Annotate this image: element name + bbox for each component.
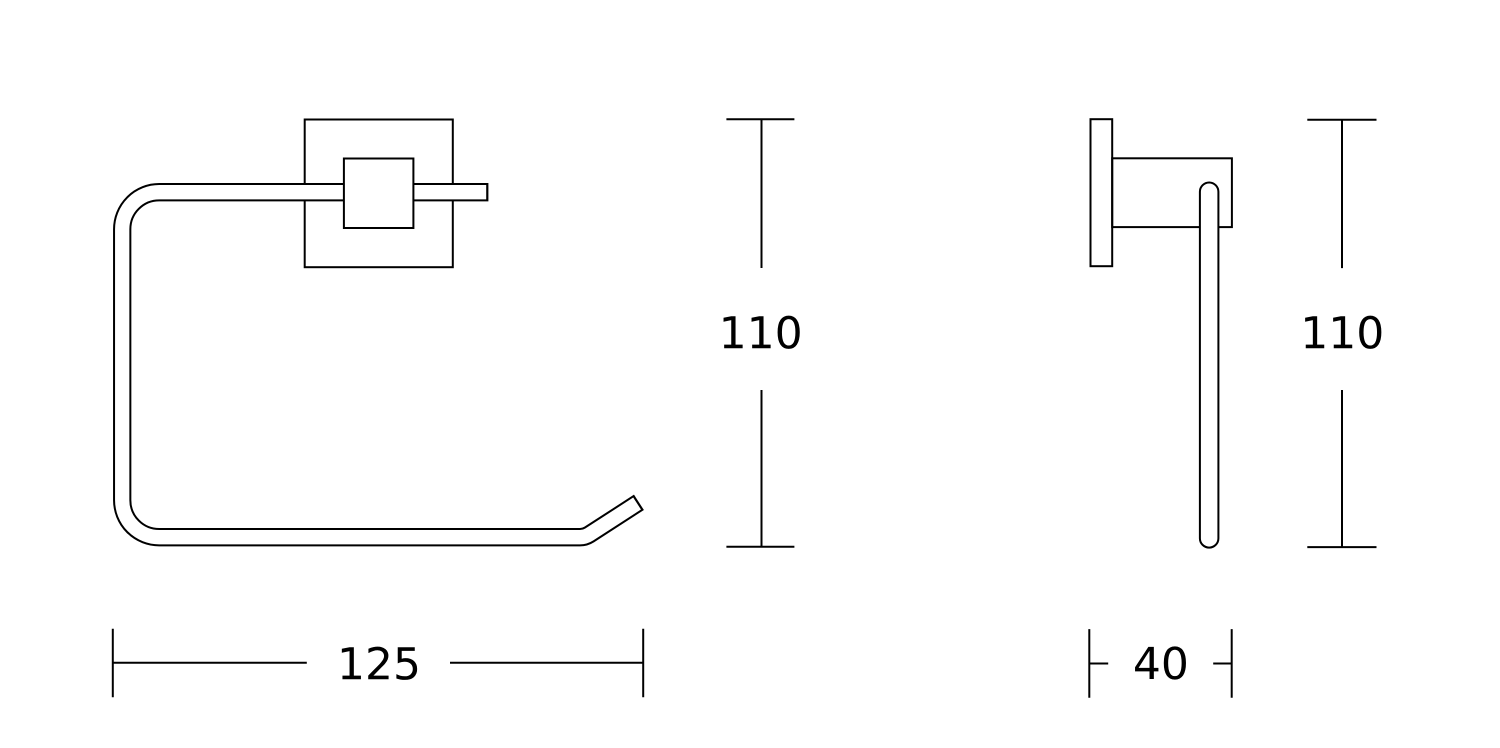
label 110 (left figure) bbox=[724, 316, 800, 349]
dimension 40 right line bbox=[1213, 663, 1232, 665]
dimension 110 (left figure) bottom tick bbox=[726, 546, 794, 548]
label 125 bbox=[342, 647, 417, 680]
dimension 125 left tick bbox=[112, 629, 114, 697]
label 110 (right figure) bbox=[1305, 316, 1381, 349]
dimension 40 left line bbox=[1089, 663, 1108, 665]
dimension 110 (left figure) lower extension line bbox=[761, 390, 763, 547]
dimension 110 (right figure) bottom tick bbox=[1307, 546, 1376, 548]
dimension 125 left line bbox=[113, 662, 307, 664]
wall plate (side view, right figure) bbox=[1091, 119, 1113, 266]
dimension 40 left tick bbox=[1088, 629, 1090, 698]
dimension 110 (left figure) top tick bbox=[726, 118, 794, 120]
mounting arm (side view, right figure) bbox=[1112, 158, 1232, 227]
rod (paper holder wire, left figure) black outline pass bbox=[122, 192, 639, 537]
dimension 125 right tick bbox=[642, 629, 644, 697]
wall plate (front view, left figure) bbox=[305, 120, 453, 268]
rod (side view capsule, right figure) bbox=[1200, 183, 1219, 548]
dimension 110 (right figure) top tick bbox=[1307, 119, 1376, 121]
dimension 125 right line bbox=[450, 662, 643, 664]
dimension 40 right tick bbox=[1231, 629, 1233, 698]
mounting cube (front view, left figure) bbox=[344, 159, 414, 229]
label 40 bbox=[1135, 646, 1186, 679]
dimension 110 (right figure) upper extension line bbox=[1341, 120, 1343, 268]
dimension 110 (left figure) upper extension line bbox=[761, 119, 763, 268]
dimension 110 (right figure) lower extension line bbox=[1341, 390, 1343, 547]
rod white fill pass bbox=[122, 192, 637, 537]
